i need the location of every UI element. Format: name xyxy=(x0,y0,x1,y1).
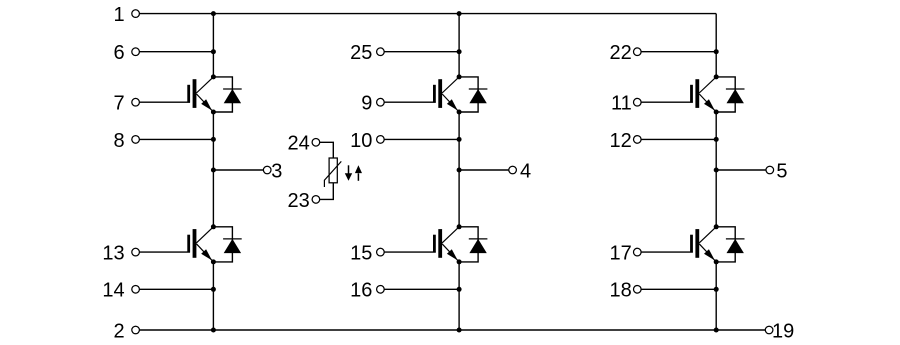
wire phase output pin 4 xyxy=(459,169,509,171)
terminal pin 1 xyxy=(132,10,140,18)
node junction pin 22 xyxy=(714,49,719,54)
terminal pin 10 xyxy=(377,136,385,144)
wire pin 25 stub xyxy=(384,51,459,53)
svg-text:18: 18 xyxy=(610,280,632,302)
label pin 1 xyxy=(113,4,124,26)
wire pin 22 stub xyxy=(641,51,716,53)
terminal pin 17 xyxy=(634,248,642,256)
node junction pin 10 xyxy=(457,137,462,142)
wire phase output pin 5 xyxy=(716,169,766,171)
svg-text:12: 12 xyxy=(610,130,632,152)
terminal pin 5 xyxy=(766,166,774,174)
wire column x=213 upper segment xyxy=(212,14,214,77)
svg-text:15: 15 xyxy=(350,243,372,265)
igbt upper (gate pin 9) with antiparallel diode xyxy=(433,74,487,114)
terminal pin 3 xyxy=(263,166,271,174)
node bottom-rail junction x=213 xyxy=(211,328,216,333)
igbt lower (gate pin 13) with antiparallel diode xyxy=(187,224,241,264)
igbt lower (gate pin 15) with antiparallel diode xyxy=(433,224,487,264)
label pin 16 xyxy=(350,280,372,302)
wire pin 10 stub xyxy=(384,138,459,140)
svg-text:13: 13 xyxy=(102,243,124,265)
terminal pin 24 xyxy=(312,139,320,147)
label pin 10 xyxy=(350,130,372,152)
terminal pin 13 xyxy=(132,248,140,256)
node bottom-rail junction x=459 xyxy=(457,328,462,333)
svg-text:19: 19 xyxy=(772,320,794,342)
label pin 2 xyxy=(113,320,124,342)
wire pin 16 stub xyxy=(384,288,459,290)
wire pin 24 to thermistor xyxy=(320,142,334,158)
wire column x=213 middle segment xyxy=(212,112,214,227)
wire column x=459 lower segment xyxy=(458,262,460,330)
label pin 13 xyxy=(102,243,124,265)
label pin 18 xyxy=(610,280,632,302)
wire pin 8 stub xyxy=(139,138,213,140)
wire gate lead pin 7 xyxy=(139,101,190,103)
label pin 22 xyxy=(610,42,632,64)
svg-text:14: 14 xyxy=(102,280,124,302)
label pin 23 xyxy=(288,190,310,212)
node junction pin 8 xyxy=(211,137,216,142)
node junction output pin 4 xyxy=(457,168,462,173)
svg-text:1: 1 xyxy=(113,4,124,26)
wire bottom DC- rail (pin 2 to pin 19) xyxy=(139,329,765,331)
wire pin 12 stub xyxy=(641,138,716,140)
thermistor arrow down xyxy=(345,165,352,181)
node junction pin 6 xyxy=(211,49,216,54)
wire gate lead pin 9 xyxy=(384,101,436,103)
node junction pin 18 xyxy=(714,287,719,292)
wire column x=213 lower segment xyxy=(212,262,214,330)
label pin 4 xyxy=(520,160,531,182)
wire phase output pin 3 xyxy=(213,169,263,171)
label pin 25 xyxy=(350,42,372,64)
terminal pin 2 xyxy=(132,326,140,334)
terminal pin 25 xyxy=(377,48,385,56)
node junction pin 14 xyxy=(211,287,216,292)
node top-rail junction x=459 xyxy=(457,11,462,16)
svg-text:3: 3 xyxy=(271,160,282,182)
node junction pin 25 xyxy=(457,49,462,54)
svg-text:7: 7 xyxy=(113,93,124,115)
svg-text:4: 4 xyxy=(520,160,531,182)
terminal pin 23 xyxy=(312,196,320,204)
thermistor diagonal stroke xyxy=(324,161,341,187)
label pin 11 xyxy=(611,93,632,115)
wire gate lead pin 13 xyxy=(139,251,190,253)
svg-text:9: 9 xyxy=(361,93,372,115)
node junction pin 12 xyxy=(714,137,719,142)
svg-text:2: 2 xyxy=(113,320,124,342)
wire gate lead pin 11 xyxy=(641,101,693,103)
svg-text:8: 8 xyxy=(113,130,124,152)
svg-text:23: 23 xyxy=(288,190,310,212)
terminal pin 12 xyxy=(634,136,642,144)
svg-text:25: 25 xyxy=(350,42,372,64)
label pin 14 xyxy=(102,280,124,302)
wire pin 18 stub xyxy=(641,288,716,290)
wire pin 6 stub xyxy=(139,51,213,53)
terminal pin 11 xyxy=(634,98,642,106)
terminal pin 6 xyxy=(132,48,140,56)
terminal pin 22 xyxy=(634,48,642,56)
igbt upper (gate pin 11) with antiparallel diode xyxy=(690,74,744,114)
svg-text:24: 24 xyxy=(288,133,310,155)
wire gate lead pin 15 xyxy=(384,251,436,253)
node top-rail junction x=213 xyxy=(211,11,216,16)
thermistor arrow up xyxy=(355,165,362,181)
label pin 5 xyxy=(776,160,787,182)
label pin 7 xyxy=(113,93,124,115)
terminal pin 4 xyxy=(509,166,517,174)
wire column x=716 middle segment xyxy=(715,112,717,227)
terminal pin 8 xyxy=(132,136,140,144)
node junction pin 16 xyxy=(457,287,462,292)
wire column x=716 lower segment xyxy=(715,262,717,330)
svg-text:16: 16 xyxy=(350,280,372,302)
label pin 6 xyxy=(113,42,124,64)
terminal pin 18 xyxy=(634,286,642,294)
wire gate lead pin 17 xyxy=(641,251,693,253)
svg-text:17: 17 xyxy=(610,243,632,265)
terminal pin 7 xyxy=(132,98,140,106)
thermistor R(T) body xyxy=(329,158,337,183)
label pin 24 xyxy=(288,133,310,155)
node junction output pin 3 xyxy=(211,168,216,173)
wire column x=716 upper segment xyxy=(715,14,717,77)
igbt upper (gate pin 7) with antiparallel diode xyxy=(187,74,241,114)
wire column x=459 upper segment xyxy=(458,14,460,77)
label pin 17 xyxy=(610,243,632,265)
terminal pin 15 xyxy=(377,248,385,256)
label pin 19 xyxy=(772,320,794,342)
label pin 3 xyxy=(271,160,282,182)
svg-text:22: 22 xyxy=(610,42,632,64)
label pin 15 xyxy=(350,243,372,265)
node junction output pin 5 xyxy=(714,168,719,173)
terminal pin 19 xyxy=(765,326,773,334)
wire thermistor to pin 23 xyxy=(320,183,334,200)
svg-text:6: 6 xyxy=(113,42,124,64)
svg-text:11: 11 xyxy=(611,93,632,115)
wire top DC+ rail (pin 1 to right column) xyxy=(139,13,716,15)
terminal pin 16 xyxy=(377,286,385,294)
terminal pin 9 xyxy=(377,98,385,106)
wire pin 14 stub xyxy=(139,288,213,290)
svg-text:5: 5 xyxy=(776,160,787,182)
wire column x=459 middle segment xyxy=(458,112,460,227)
node bottom-rail junction x=716 xyxy=(714,328,719,333)
label pin 12 xyxy=(610,130,632,152)
label pin 9 xyxy=(361,93,372,115)
terminal pin 14 xyxy=(132,286,140,294)
igbt lower (gate pin 17) with antiparallel diode xyxy=(690,224,744,264)
svg-text:10: 10 xyxy=(350,130,372,152)
label pin 8 xyxy=(113,130,124,152)
